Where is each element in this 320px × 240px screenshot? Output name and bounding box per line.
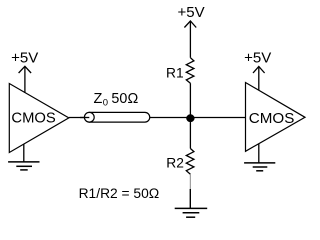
+5V arrow (middle)	[184, 21, 196, 58]
wire into coax cap	[80, 117, 89, 119]
ground (right, receiver)	[244, 144, 275, 171]
svg-text:+5V: +5V	[11, 50, 38, 67]
resistor R2	[186, 149, 194, 175]
node: junction dot	[186, 114, 194, 122]
+5V arrow (right)	[253, 67, 265, 91]
wire: driver output to coax	[69, 117, 90, 119]
ground (left, driver)	[8, 144, 39, 170]
+5V arrow (left)	[19, 66, 32, 93]
svg-text:R2: R2	[166, 156, 184, 171]
svg-text:R1/R2 = 50Ω: R1/R2 = 50Ω	[79, 186, 160, 201]
wire: coax to receiver input	[150, 117, 246, 119]
wire: mid vertical (R1 bottom to node to R2 top)	[189, 83, 191, 148]
ground (middle, R2)	[175, 189, 208, 217]
svg-text:CMOS: CMOS	[249, 110, 295, 127]
svg-text:0: 0	[103, 97, 108, 108]
svg-text:+5V: +5V	[244, 50, 271, 67]
wire: R2 lower lead (thin/grey)	[189, 174, 191, 189]
svg-text:CMOS: CMOS	[11, 111, 56, 127]
resistor R1	[186, 58, 194, 83]
CMOS driver gate U1	[9, 84, 69, 153]
svg-text:+5V: +5V	[178, 4, 205, 21]
CMOS receiver gate U2	[246, 83, 306, 152]
svg-text:50Ω: 50Ω	[111, 91, 138, 107]
svg-text:Z: Z	[94, 91, 103, 107]
transmission line Z0 (coax body)	[89, 112, 149, 122]
svg-text:R1: R1	[166, 65, 184, 80]
coax left end cap	[84, 112, 94, 122]
